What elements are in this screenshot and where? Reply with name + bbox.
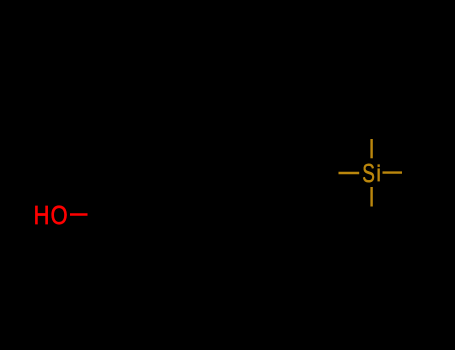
wire: bond C3-C4 <box>183 196 216 215</box>
atom label Si (silicon): i glyph dot <box>378 164 380 167</box>
svg-text:S: S <box>362 158 375 188</box>
wire: bond C4-C5 <box>216 173 266 196</box>
wire: bond C6-Si (black half) <box>304 172 339 174</box>
wire: bond O-C1 (black half) <box>88 213 117 215</box>
wire: bond Si-CH3 down (gold half) <box>370 187 372 207</box>
wire: bond C2-C3 <box>150 196 183 215</box>
wire: bond O-C1 (red half) <box>70 213 88 215</box>
wire: bond Si-CH3 right (gold half) <box>383 171 403 173</box>
svg-text:O: O <box>51 201 68 230</box>
wire: bond C6-Si (gold half) <box>339 172 360 174</box>
wire: bond Si-CH3 up (black half) <box>370 114 372 139</box>
atom label Si (silicon): i glyph stem <box>378 168 380 181</box>
svg-text:H: H <box>34 201 50 230</box>
wire: bond C1-C2 <box>117 196 150 215</box>
wire: triple bond C5#C6 <box>266 169 304 178</box>
wire: bond Si-CH3 up (gold half) <box>370 139 372 158</box>
wire: bond Si-CH3 right (black half) <box>402 171 427 173</box>
wire: bond Si-CH3 down (black half) <box>370 207 372 232</box>
